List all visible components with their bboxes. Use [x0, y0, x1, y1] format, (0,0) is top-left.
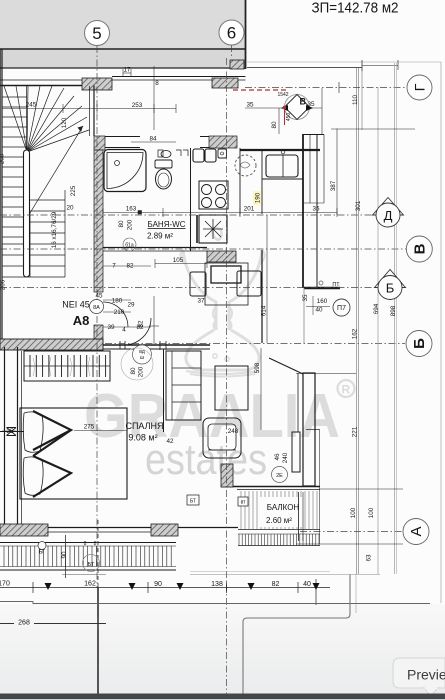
right wall column: [302, 134, 304, 288]
svg-text:Г: Г: [412, 83, 428, 91]
bath left hatched wall: [94, 150, 103, 292]
svg-text:5: 5: [92, 24, 101, 43]
axis markers right: [407, 75, 432, 100]
svg-text:898: 898: [390, 305, 397, 316]
hatched wall piers top: [82, 78, 112, 90]
svg-text:R: R: [342, 383, 351, 397]
svg-text:240: 240: [282, 452, 289, 463]
svg-text:А8: А8: [73, 313, 90, 328]
svg-text:268: 268: [18, 620, 30, 627]
svg-text:2.60 м²: 2.60 м²: [266, 516, 292, 525]
svg-text:245: 245: [26, 102, 37, 109]
svg-text:63: 63: [366, 554, 373, 562]
svg-text:1542: 1542: [277, 92, 288, 98]
triangle axis markers: [373, 198, 404, 216]
small circled labels: [90, 300, 104, 314]
red vent marks: [233, 90, 289, 125]
svg-text:201: 201: [244, 206, 255, 213]
svg-text:180: 180: [112, 298, 123, 305]
dimension lines: [2, 66, 415, 613]
svg-text:35: 35: [302, 294, 309, 302]
svg-text:200: 200: [127, 219, 134, 230]
svg-text:90: 90: [61, 551, 68, 559]
top-left gray building mass: [0, 0, 246, 49]
svg-text:БАЛКОН: БАЛКОН: [267, 503, 300, 512]
svg-text:ш: ш: [140, 355, 144, 361]
svg-text:БАНЯ-WC: БАНЯ-WC: [148, 220, 186, 229]
svg-text:162: 162: [84, 581, 96, 588]
svg-text:200: 200: [138, 366, 145, 377]
bedroom left wall: [4, 347, 6, 530]
desk: [215, 366, 248, 410]
svg-text:2Е: 2Е: [276, 473, 283, 479]
balcony lower right: [221, 486, 320, 488]
balcony diagonal: [269, 358, 303, 374]
svg-text:225: 225: [70, 185, 77, 196]
svg-text:2.89 м²: 2.89 м²: [147, 232, 173, 241]
watermark grail logo: [180, 228, 264, 377]
living right wall: [261, 250, 263, 343]
bottom wall of living zone: [0, 339, 103, 350]
svg-text:80: 80: [118, 220, 125, 228]
bottom dark bar: [0, 694, 445, 700]
boiler dashed: [235, 155, 256, 176]
svg-text:210: 210: [114, 309, 125, 316]
svg-text:Preview: Preview: [407, 667, 445, 683]
dining hatched pier: [207, 251, 236, 262]
svg-text:40: 40: [315, 307, 323, 314]
svg-text:200: 200: [0, 153, 6, 164]
svg-text:б1а: б1а: [125, 243, 134, 249]
svg-text:17: 17: [123, 67, 131, 74]
svg-text:387: 387: [330, 180, 337, 191]
268 dim: [0, 623, 106, 625]
bedroom bottom wall: [0, 527, 238, 529]
svg-text:253: 253: [132, 102, 143, 109]
svg-text:248: 248: [228, 428, 239, 435]
svg-text:42: 42: [166, 438, 174, 445]
svg-text:100: 100: [350, 507, 357, 518]
svg-text:450: 450: [286, 113, 292, 122]
svg-text:БГ: БГ: [39, 550, 45, 556]
stove 4 burners: [199, 181, 228, 209]
bottom boundary line: [0, 602, 430, 604]
right wall column + radiator: [303, 373, 315, 486]
svg-text:40: 40: [303, 581, 311, 588]
svg-text:8: 8: [84, 541, 87, 547]
svg-text:190: 190: [255, 192, 262, 203]
svg-text:БТ: БТ: [190, 499, 196, 505]
armchair: [203, 418, 241, 458]
svg-text:29: 29: [127, 302, 135, 309]
rotated dim texts: [0, 94, 397, 561]
svg-text:СПАЛНЯ: СПАЛНЯ: [125, 421, 163, 431]
svg-text:100: 100: [368, 507, 375, 518]
svg-text:7: 7: [112, 263, 116, 270]
svg-text:82: 82: [126, 263, 134, 270]
shower: [104, 150, 146, 192]
svg-text:82: 82: [272, 581, 280, 588]
bed: [20, 408, 127, 499]
svg-text:8: 8: [94, 541, 97, 547]
svg-text:4: 4: [122, 327, 126, 334]
svg-text:ЗП=142.78 м2: ЗП=142.78 м2: [312, 1, 399, 17]
bedroom right wall: [163, 349, 165, 432]
svg-text:163: 163: [126, 206, 137, 213]
washing machine with star: [199, 215, 227, 243]
svg-text:84: 84: [149, 136, 157, 143]
stairs: [2, 86, 89, 277]
svg-text:206: 206: [0, 279, 7, 290]
svg-text:39: 39: [107, 324, 115, 331]
svg-text:694: 694: [373, 303, 380, 314]
svg-text:45: 45: [95, 293, 103, 300]
svg-text:25: 25: [6, 428, 14, 435]
closet with hangers: [24, 351, 110, 381]
svg-text:В: В: [300, 97, 307, 107]
small dim texts horizontal: [6, 67, 327, 436]
svg-text:16 x16,76/29: 16 x16,76/29: [51, 211, 58, 248]
sofa: [166, 351, 201, 420]
vent symbol B: [285, 95, 310, 120]
190 highlighted: [253, 191, 261, 205]
svg-text:275: 275: [84, 424, 95, 431]
svg-text:110: 110: [352, 94, 359, 105]
svg-text:160: 160: [317, 298, 328, 305]
svg-text:37: 37: [197, 298, 205, 305]
svg-text:А: А: [408, 526, 425, 536]
kitchen counter right: [240, 149, 320, 151]
bottom light band: [0, 604, 445, 694]
svg-text:90: 90: [154, 581, 162, 588]
svg-text:вт: вт: [241, 500, 247, 506]
svg-text:35: 35: [312, 206, 320, 213]
bottom dimension row: [0, 579, 330, 694]
svg-text:В: В: [411, 243, 428, 254]
svg-text:162: 162: [352, 328, 359, 339]
dining table group: [205, 263, 248, 305]
svg-text:35: 35: [246, 102, 254, 109]
left balcony railing: [0, 542, 176, 544]
svg-text:8: 8: [155, 80, 159, 87]
svg-text:9.08 м²: 9.08 м²: [128, 433, 157, 443]
svg-text:105: 105: [173, 257, 184, 264]
svg-text:80: 80: [130, 367, 137, 375]
svg-text:Б: Б: [411, 338, 428, 349]
svg-text:170: 170: [0, 581, 10, 588]
svg-text:Б: Б: [386, 281, 395, 296]
axis markers top: [85, 21, 110, 46]
svg-text:8А: 8А: [93, 305, 100, 311]
svg-text:П7: П7: [337, 305, 346, 312]
svg-text:598: 598: [254, 362, 261, 373]
svg-text:estates: estates: [145, 435, 267, 484]
left outer wall: [1, 49, 3, 339]
svg-text:221: 221: [352, 426, 359, 437]
wash basin: [161, 151, 171, 158]
stair/bath wall: [93, 86, 95, 137]
long thin section/dim verticals right: [357, 62, 442, 603]
PLAN_LINEWORK: [0, 49, 441, 570]
svg-text:БТ: БТ: [88, 562, 95, 568]
svg-text:80: 80: [271, 121, 278, 129]
svg-text:Д: Д: [384, 208, 393, 223]
preview tooltip: [393, 658, 445, 688]
svg-text:138: 138: [211, 581, 223, 588]
svg-text:82: 82: [138, 320, 145, 328]
kitchen sinks: [193, 149, 204, 162]
svg-text:ПТ: ПТ: [332, 282, 340, 288]
svg-text:46: 46: [274, 453, 281, 461]
svg-text:301: 301: [355, 200, 362, 211]
step outline lower right: [243, 575, 350, 695]
svg-text:NEI 45: NEI 45: [62, 300, 90, 310]
entry door arcs: [103, 302, 128, 327]
toilet: [155, 160, 172, 168]
svg-text:614: 614: [261, 305, 268, 316]
bath-kitchen top wall band: [94, 136, 237, 138]
svg-text:6: 6: [227, 24, 236, 43]
corridor top wall lines: [0, 79, 246, 81]
bath/kitchen divider: [190, 148, 192, 251]
svg-text:20: 20: [66, 205, 74, 212]
svg-text:120: 120: [61, 117, 68, 128]
